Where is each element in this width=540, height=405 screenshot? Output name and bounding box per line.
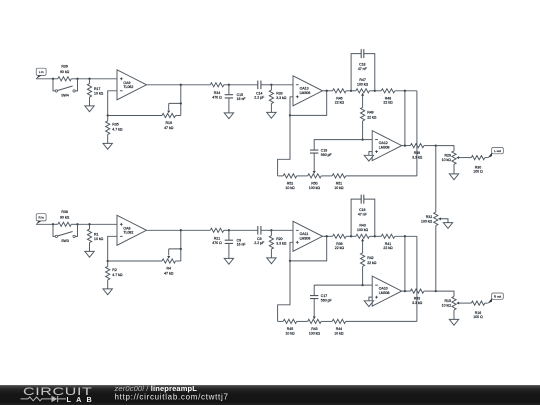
wire: [108, 115, 162, 117]
capacitor C14 2.2 &#181;F: [254, 81, 271, 100]
resistor R34 470 Ω: [210, 83, 229, 100]
terminal flag R out: [487, 293, 503, 304]
ground: [449, 174, 458, 180]
resistor R45 10 kΩ: [283, 319, 308, 335]
svg-text:R33: R33: [276, 91, 282, 95]
svg-text:R29: R29: [444, 154, 450, 158]
svg-text:R1: R1: [94, 232, 99, 236]
wire op-amp output: [147, 84, 211, 86]
ground: [443, 223, 452, 229]
svg-text:100 kΩ: 100 kΩ: [309, 331, 321, 335]
node junction: [289, 114, 291, 116]
svg-text:R51: R51: [336, 181, 342, 185]
node output junction: [180, 84, 182, 86]
svg-text:C17: C17: [321, 294, 327, 298]
wire: [78, 78, 118, 80]
capacitor C19 560 pF: [310, 149, 332, 174]
svg-text:560 pF: 560 pF: [321, 299, 332, 303]
svg-text:R17: R17: [94, 87, 100, 91]
svg-text:R out: R out: [494, 294, 501, 298]
svg-text:R35: R35: [112, 123, 118, 127]
svg-text:90 kΩ: 90 kΩ: [60, 70, 70, 74]
node input-right junction: [76, 223, 78, 225]
svg-text:R44: R44: [336, 327, 342, 331]
svg-text:R32: R32: [426, 215, 432, 219]
wire: [36, 78, 53, 80]
potentiometer R19 47 kΩ: [162, 103, 181, 129]
node junction: [350, 90, 352, 92]
svg-text:R4: R4: [166, 267, 171, 271]
potentiometer R15 10 kΩ: [442, 296, 472, 319]
ground: [449, 319, 458, 325]
svg-text:LM308: LM308: [379, 146, 390, 150]
wire: [314, 140, 362, 151]
svg-text:10 kΩ: 10 kΩ: [285, 331, 295, 335]
ground: [224, 113, 233, 119]
node junction: [350, 235, 352, 237]
node feedback junction: [107, 114, 109, 116]
svg-text:R34: R34: [214, 91, 220, 95]
potentiometer R40 100 kΩ: [351, 224, 375, 243]
svg-text:22 kΩ: 22 kΩ: [383, 101, 393, 105]
resistor R51 10 kΩ: [332, 174, 417, 190]
svg-text:C15: C15: [237, 93, 243, 97]
wire: [271, 84, 293, 86]
svg-text:R38: R38: [61, 210, 67, 214]
wire: [314, 285, 362, 296]
svg-text:SW3: SW3: [61, 239, 69, 243]
node coupling junction: [270, 84, 272, 86]
resistor R21 470 Ω: [210, 228, 229, 245]
wire: [436, 291, 454, 296]
svg-text:22 kΩ: 22 kΩ: [367, 261, 377, 265]
svg-text:22 kΩ: 22 kΩ: [367, 115, 377, 119]
wire: [436, 146, 454, 151]
wire: [229, 84, 258, 86]
node output junction: [326, 235, 328, 237]
svg-text:LAB: LAB: [67, 395, 97, 404]
svg-text:R16: R16: [475, 311, 481, 315]
wire: [180, 230, 182, 249]
svg-text:16 nF: 16 nF: [237, 97, 246, 101]
wire: [416, 236, 418, 321]
svg-text:10 kΩ: 10 kΩ: [285, 186, 295, 190]
wire tone network row: [278, 320, 284, 322]
capacitor C18 47 nF: [351, 49, 375, 91]
resistor R17 10 kΩ: [87, 79, 103, 106]
ground: [103, 143, 112, 149]
svg-text:LM308: LM308: [379, 291, 390, 295]
svg-text:100 kΩ: 100 kΩ: [357, 228, 369, 232]
node wiper junction: [180, 248, 182, 250]
node lowpass junction: [228, 229, 230, 231]
potentiometer R43 100 kΩ: [308, 319, 333, 335]
wire: [271, 229, 293, 231]
svg-text:R21: R21: [214, 236, 220, 240]
wire: [369, 152, 372, 156]
resistor R2 4.7 kΩ: [106, 261, 123, 289]
node output junction: [404, 144, 406, 146]
wire output feedback loop: [290, 91, 327, 116]
wire: [36, 223, 53, 225]
node junction: [289, 260, 291, 262]
wire: [369, 297, 372, 301]
node output junction: [404, 290, 406, 292]
node input-left junction: [52, 78, 54, 80]
wire: [108, 260, 162, 262]
ground: [85, 251, 94, 257]
ground: [224, 258, 233, 264]
ground: [85, 106, 94, 112]
svg-text:C14: C14: [256, 91, 262, 95]
svg-text:R50: R50: [311, 181, 317, 185]
ground: [267, 258, 276, 264]
capacitor C8 2.2 &#181;F: [254, 226, 271, 245]
svg-text:47 kΩ: 47 kΩ: [164, 271, 174, 275]
wire inverting input: [108, 236, 117, 261]
svg-text:100 kΩ: 100 kΩ: [357, 82, 369, 86]
svg-text:100 Ω: 100 Ω: [473, 315, 483, 319]
terminal flag L in: [36, 68, 46, 79]
wire op-amp output: [323, 90, 333, 92]
wire: [363, 284, 373, 286]
node R-divider junction: [88, 78, 90, 80]
svg-text:R15: R15: [444, 299, 450, 303]
ground: [267, 112, 276, 118]
svg-text:4.7 kΩ: 4.7 kΩ: [112, 127, 123, 131]
node lowpass junction: [228, 84, 230, 86]
svg-text:3.3 kΩ: 3.3 kΩ: [412, 156, 423, 160]
wire op-amp output: [147, 229, 211, 231]
svg-text:TL082: TL082: [123, 85, 133, 89]
potentiometer R29 10 kΩ: [442, 151, 472, 174]
resistor R1 10 kΩ: [87, 224, 103, 251]
node coupling junction: [270, 229, 272, 231]
terminal flag R in: [36, 214, 46, 225]
svg-text:10 kΩ: 10 kΩ: [334, 186, 344, 190]
wire: [229, 229, 258, 231]
svg-text:4.7 kΩ: 4.7 kΩ: [112, 273, 123, 277]
node wiper junction: [180, 102, 182, 104]
svg-text:470 Ω: 470 Ω: [212, 241, 222, 245]
node input-left junction: [52, 223, 54, 225]
capacitor C9 16 nF: [225, 230, 246, 258]
potentiometer R4 47 kΩ: [162, 249, 181, 275]
node inverting junction: [361, 284, 363, 286]
ground: [364, 155, 373, 161]
resistor R38 90 kΩ: [53, 210, 78, 226]
resistor R48 22 kΩ: [375, 89, 417, 105]
resistor R36 90 kΩ: [53, 65, 78, 81]
resistor R46 22 kΩ: [333, 89, 352, 105]
svg-text:C19: C19: [321, 149, 327, 153]
svg-text:2.2 µF: 2.2 µF: [254, 96, 264, 100]
op-amp OA12 LM308: [372, 131, 402, 161]
capacitor C15 16 nF: [225, 85, 246, 113]
wire op-amp output: [402, 290, 411, 292]
svg-text:22 kΩ: 22 kΩ: [335, 101, 345, 105]
wire inverting input: [108, 91, 117, 116]
CircuitLab logo resistor-diode squiggle: [21, 396, 67, 402]
svg-text:TL082: TL082: [123, 231, 133, 235]
resistor R52 10 kΩ: [283, 174, 308, 190]
potentiometer R32 100 kΩ: [421, 212, 448, 226]
capacitor C16 47 nF: [351, 195, 375, 237]
svg-text:OA10: OA10: [379, 287, 388, 291]
ground: [364, 301, 373, 307]
wire: [404, 91, 406, 146]
wire: [435, 226, 437, 292]
resistor R20 3.3 kΩ: [269, 230, 286, 258]
svg-text:R19: R19: [165, 121, 171, 125]
wire: [404, 236, 406, 291]
svg-text:10 kΩ: 10 kΩ: [94, 92, 104, 96]
wire to tone network: [278, 261, 290, 322]
svg-text:10 kΩ: 10 kΩ: [334, 331, 344, 335]
node junction: [374, 235, 376, 237]
node output junction: [180, 229, 182, 231]
wire: [78, 223, 118, 225]
svg-text:10 kΩ: 10 kΩ: [442, 158, 452, 162]
node feedback junction: [404, 90, 406, 92]
op-amp OA8 TL082: [117, 215, 147, 245]
svg-text:R20: R20: [276, 237, 282, 241]
resistor R59 3.3 kΩ: [410, 144, 435, 160]
potentiometer R47 100 kΩ: [351, 78, 375, 97]
op-amp OA9 TL082: [117, 70, 147, 100]
node R-divider junction: [88, 223, 90, 225]
resistor R49 22 kΩ: [361, 97, 377, 140]
resistor R16 100 Ω: [471, 301, 487, 319]
svg-text:2.2 µF: 2.2 µF: [254, 241, 264, 245]
resistor R44 10 kΩ: [332, 319, 417, 335]
node volume junction: [435, 144, 437, 146]
svg-text:R30: R30: [475, 165, 481, 169]
svg-text:R36: R36: [61, 65, 67, 69]
resistor R39 22 kΩ: [333, 234, 352, 250]
resistor R35 4.7 kΩ: [106, 116, 123, 144]
svg-text:22 kΩ: 22 kΩ: [383, 246, 393, 250]
resistor R33 3.3 kΩ: [269, 85, 286, 113]
wire op-amp output: [323, 235, 333, 237]
wire to tone network: [278, 115, 290, 175]
svg-text:100 Ω: 100 Ω: [473, 170, 483, 174]
svg-text:C8: C8: [257, 237, 262, 241]
svg-text:http://circuitlab.com/ctwttj7: http://circuitlab.com/ctwttj7: [115, 392, 229, 401]
svg-text:R59: R59: [414, 151, 420, 155]
svg-text:OA12: OA12: [379, 141, 388, 145]
node inverting junction: [361, 138, 363, 140]
op-amp OA13 LM308: [293, 76, 323, 106]
svg-text:OA13: OA13: [300, 86, 309, 90]
svg-text:C9: C9: [237, 238, 242, 242]
svg-text:R45: R45: [287, 327, 293, 331]
node output junction: [326, 90, 328, 92]
terminal flag L out: [487, 148, 503, 159]
svg-text:47 nF: 47 nF: [358, 212, 367, 216]
svg-text:3.3 kΩ: 3.3 kΩ: [276, 241, 287, 245]
svg-text:90 kΩ: 90 kΩ: [60, 215, 70, 219]
wire non-inverting input: [290, 97, 293, 116]
svg-text:470 Ω: 470 Ω: [212, 96, 222, 100]
svg-text:R53: R53: [414, 297, 420, 301]
svg-text:R43: R43: [311, 327, 317, 331]
svg-text:16 nF: 16 nF: [237, 243, 246, 247]
svg-text:100 kΩ: 100 kΩ: [309, 186, 321, 190]
svg-text:LM308: LM308: [300, 91, 311, 95]
svg-text:R42: R42: [367, 256, 373, 260]
switch SW3: [53, 224, 78, 243]
node feedback junction: [404, 235, 406, 237]
wire: [180, 85, 182, 104]
resistor R30 100 Ω: [471, 156, 487, 174]
op-amp OA11 LM308: [293, 221, 323, 251]
svg-text:R2: R2: [112, 268, 117, 272]
resistor R53 3.3 kΩ: [410, 289, 435, 305]
svg-text:100 kΩ: 100 kΩ: [421, 219, 433, 223]
ground: [103, 289, 112, 295]
node input-right junction: [76, 78, 78, 80]
wire op-amp output: [402, 145, 411, 147]
switch SW4: [53, 79, 78, 98]
wire non-inverting input: [290, 242, 293, 261]
svg-text:10 kΩ: 10 kΩ: [442, 304, 452, 308]
node feedback junction: [107, 260, 109, 262]
wire tone network row: [278, 175, 284, 177]
wire output feedback loop: [290, 236, 327, 261]
op-amp OA10 LM308: [372, 276, 402, 306]
node junction: [374, 90, 376, 92]
potentiometer R50 100 kΩ: [308, 174, 333, 190]
svg-text:47 nF: 47 nF: [358, 67, 367, 71]
svg-text:SW4: SW4: [61, 94, 69, 98]
svg-text:560 pF: 560 pF: [321, 153, 332, 157]
svg-text:OA11: OA11: [300, 232, 309, 236]
svg-text:R52: R52: [287, 181, 293, 185]
node volume junction: [435, 290, 437, 292]
svg-text:LM308: LM308: [300, 236, 311, 240]
wire: [435, 146, 437, 213]
svg-text:3.3 kΩ: 3.3 kΩ: [412, 301, 423, 305]
svg-text:R49: R49: [367, 111, 373, 115]
svg-text:10 kΩ: 10 kΩ: [94, 237, 104, 241]
svg-text:47 kΩ: 47 kΩ: [164, 126, 174, 130]
svg-text:L in: L in: [39, 70, 44, 74]
resistor R41 22 kΩ: [375, 234, 417, 250]
capacitor C17 560 pF: [310, 294, 332, 319]
svg-text:R in: R in: [39, 215, 45, 219]
wire: [416, 91, 418, 176]
svg-text:L out: L out: [494, 149, 501, 153]
svg-text:22 kΩ: 22 kΩ: [335, 246, 345, 250]
wire: [363, 139, 373, 141]
resistor R42 22 kΩ: [361, 242, 377, 285]
svg-text:3.3 kΩ: 3.3 kΩ: [276, 96, 287, 100]
